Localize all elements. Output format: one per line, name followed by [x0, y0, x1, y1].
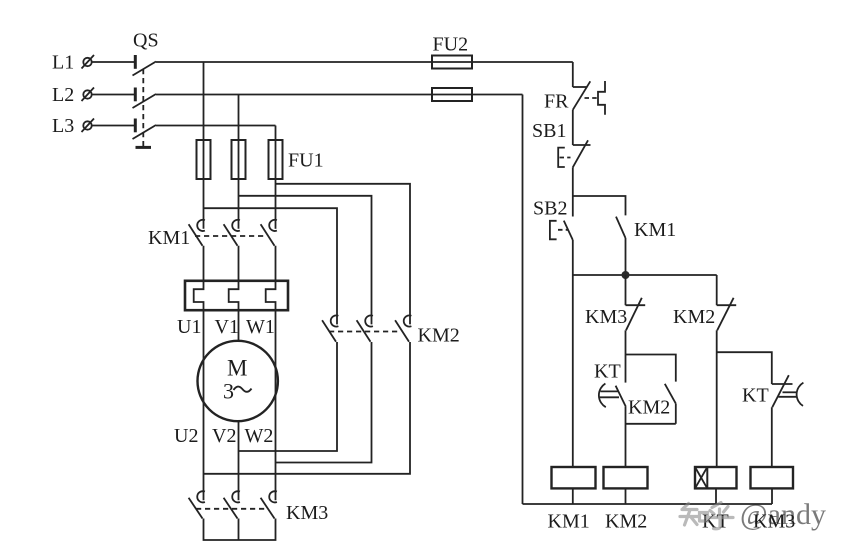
svg-text:3: 3: [223, 379, 234, 404]
wire dot to KM3 NC: [625, 275, 627, 305]
wire branch to KM2 aux: [626, 355, 676, 382]
fuse FU1 c: [269, 140, 283, 179]
wire phase2 with FR heater element 2: [229, 246, 239, 341]
wire phase2 drop: [238, 95, 240, 229]
svg-text:U2: U2: [174, 425, 198, 447]
svg-text:KT: KT: [742, 385, 769, 407]
contactor KM2 main pole 2: [357, 315, 373, 341]
wire bottom rail: [523, 503, 773, 505]
wire KM3 coil to rail: [771, 488, 773, 504]
coil KM1: [552, 467, 596, 488]
contactor KM1 main pole 1: [189, 220, 205, 246]
wire L1 bus: [156, 61, 573, 63]
svg-text:@andy: @andy: [740, 498, 826, 531]
wire SB2 down: [572, 240, 574, 275]
wire KM1 coil branch down: [572, 275, 574, 467]
contactor KM3 main pole 1: [189, 491, 205, 518]
svg-text:KM3: KM3: [286, 502, 328, 524]
wire W2 branch to KM2 pole2 bottom: [276, 342, 372, 463]
timer KT delayed-open NC contact: [772, 375, 804, 407]
contactor KM1 main pole 2: [224, 220, 240, 246]
terminal L3: [82, 119, 95, 133]
contactor KM2 main pole 3: [395, 315, 411, 341]
contactor KM2 aux NO contact: [665, 384, 676, 424]
SB2 actuator: [550, 221, 568, 240]
wire parallel join: [626, 407, 676, 467]
coil KT with X section: [695, 467, 737, 488]
timer KT delayed-close NO contact: [599, 384, 626, 408]
svg-text:V1: V1: [215, 316, 239, 338]
wire phase3 with FR heater element 3: [266, 246, 276, 501]
wire L2 bus: [156, 94, 523, 96]
switch QS pole 2: [133, 88, 157, 109]
fuse FU1 b: [232, 140, 246, 179]
coil KM3: [751, 467, 794, 488]
wire branch phase1 to KM2 pole1: [204, 208, 338, 324]
svg-text:L1: L1: [52, 52, 74, 74]
wire phase1 drop: [203, 62, 205, 229]
svg-text:QS: QS: [133, 30, 159, 52]
svg-text:KM2: KM2: [605, 511, 647, 533]
contactor KM3 main pole 3: [261, 491, 277, 518]
fuse FU1 a: [197, 140, 211, 179]
wire branch to KM1 aux: [573, 196, 626, 215]
svg-text:V2: V2: [212, 425, 236, 447]
terminal L2: [82, 88, 95, 102]
svg-text:FU2: FU2: [433, 34, 469, 56]
svg-text:W2: W2: [245, 425, 274, 447]
wire KM2 coil to rail: [625, 488, 627, 504]
svg-text:KM2: KM2: [673, 306, 715, 328]
wire KM1 coil to rail: [572, 488, 574, 504]
wire L3 to QS: [92, 125, 135, 127]
fuse FU2 a: [432, 56, 472, 69]
svg-text:FR: FR: [544, 91, 569, 113]
wire L1 down to FR: [572, 62, 574, 87]
wire U2 branch to KM2 pole3 bottom: [204, 342, 411, 474]
junction dot: [622, 271, 630, 279]
motor M circle: [198, 341, 278, 421]
wire L1 to QS: [92, 61, 135, 63]
wire branch phase3 to KM2 pole3: [276, 184, 411, 325]
svg-text:L2: L2: [52, 84, 74, 106]
svg-text:KM2: KM2: [418, 325, 460, 347]
FR actuator: [585, 81, 606, 115]
QS handle bar: [136, 146, 152, 149]
svg-text:M: M: [227, 356, 247, 381]
button SB2 NO contact: [564, 221, 573, 240]
contactor KM3 main pole 2: [224, 491, 240, 518]
wire phase1 with FR heater element 1: [194, 246, 204, 501]
switch QS pole 1: [133, 55, 157, 76]
svg-text:KM3: KM3: [585, 306, 627, 328]
wire KM3nc to KT contact: [625, 330, 627, 382]
svg-text:KT: KT: [594, 361, 621, 383]
button SB1 NC contact: [573, 140, 591, 167]
SB1 actuator: [558, 148, 570, 167]
relay FR NC contact: [573, 81, 591, 110]
wire node line: [573, 274, 717, 276]
contactor KM2 NC contact: [717, 298, 737, 331]
contactor KM2 main pole 1: [322, 315, 338, 341]
svg-text:W1: W1: [246, 316, 275, 338]
svg-text:L3: L3: [52, 115, 74, 137]
wire L3 bus: [156, 125, 276, 127]
thermal relay FR box: [185, 281, 288, 310]
wire KT coil to rail: [715, 488, 717, 504]
svg-text:KM1: KM1: [548, 511, 590, 533]
coil KM2: [604, 467, 648, 488]
switch QS pole 3: [133, 119, 157, 140]
QS linkage dashed: [142, 69, 144, 146]
wire KT contact to KM3 coil: [771, 407, 773, 467]
svg-text:U1: U1: [177, 316, 201, 338]
wire FR to SB1: [572, 110, 574, 145]
watermark zhihu: [680, 503, 733, 529]
wire L2 to QS: [92, 94, 135, 96]
wire phase3 drop: [275, 126, 277, 229]
wire KM2nc down to KT coil: [716, 330, 718, 467]
KM3 linkage dashed: [196, 508, 266, 510]
wire V2 from motor bottom: [238, 421, 240, 500]
svg-text:SB1: SB1: [532, 120, 566, 142]
wire SB1 to SB2: [572, 167, 574, 216]
contactor KM3 NC contact: [626, 298, 646, 331]
wire branch phase2 to KM2 pole2: [239, 196, 372, 325]
contactor KM1 main pole 3: [261, 220, 277, 246]
wire V2 branch to KM2 pole1 bottom: [239, 342, 338, 451]
svg-text:KM2: KM2: [628, 397, 670, 419]
contactor KM1 aux NO contact: [616, 217, 626, 275]
fuse FU2 b: [432, 88, 472, 101]
svg-text:SB2: SB2: [533, 198, 567, 220]
wire branch to KT contact: [717, 352, 772, 384]
svg-text:KM1: KM1: [148, 227, 190, 249]
KM2 linkage dashed: [329, 331, 401, 333]
wire KM3 star point: [204, 519, 276, 541]
terminal L1: [82, 55, 95, 69]
svg-text:KM1: KM1: [634, 219, 676, 241]
wire node to KM2 NC: [716, 275, 718, 305]
KM1 linkage dashed: [195, 235, 267, 237]
wire control left rail: [522, 95, 524, 505]
svg-text:FU1: FU1: [288, 150, 324, 172]
